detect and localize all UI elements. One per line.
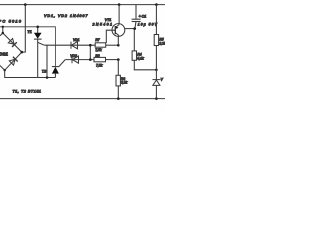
wire bridge plus to top rail bbox=[22, 5, 26, 53]
svg-text:V: V bbox=[161, 77, 164, 81]
wire R4 to right branch bbox=[134, 60, 156, 70]
diode VD2 bbox=[72, 56, 79, 63]
node bridge right vertex bbox=[21, 51, 24, 54]
node bus bridge junction bbox=[2, 26, 4, 28]
svg-text:T1: T1 bbox=[27, 29, 32, 34]
wire vertical gate to anode rail bbox=[46, 45, 48, 77]
svg-text:7,5k: 7,5k bbox=[95, 48, 102, 52]
node right branch junction bbox=[155, 69, 158, 72]
resistor R2 bbox=[94, 57, 106, 61]
wire top rail bbox=[0, 4, 165, 6]
svg-text:VT1: VT1 bbox=[105, 18, 112, 22]
svg-text:3,3k: 3,3k bbox=[121, 81, 128, 85]
diode VD1 bbox=[71, 42, 78, 49]
node collector to C1 bbox=[133, 27, 136, 30]
thyristor T1 bbox=[34, 27, 44, 78]
svg-text:7,5k: 7,5k bbox=[96, 63, 103, 67]
svg-text:2,2k: 2,2k bbox=[158, 41, 165, 45]
node wire77 junction bbox=[46, 76, 49, 79]
wire collector chain down bbox=[117, 60, 119, 76]
diode VD3 bottom right bbox=[153, 80, 161, 99]
node bottom rail junction right diode bbox=[155, 97, 158, 100]
wire bridge bottom to T1 T2 anode rail bbox=[5, 70, 56, 77]
node gate line top bbox=[89, 44, 92, 47]
svg-text:2N5401: 2N5401 bbox=[92, 22, 113, 26]
svg-text:T1, T2 BT151: T1, T2 BT151 bbox=[13, 89, 42, 93]
svg-text:VD1: VD1 bbox=[73, 38, 80, 42]
resistor R4 bbox=[132, 51, 136, 60]
wire VD2 gate line bbox=[65, 59, 94, 61]
node collector mid bbox=[117, 58, 120, 61]
svg-text:PC 5010: PC 5010 bbox=[0, 19, 22, 24]
node bridge bottom vertex bbox=[3, 69, 5, 71]
wire junction gate lines bbox=[89, 45, 91, 59]
wire VD1 gate line bbox=[44, 44, 95, 46]
wire bottom rail bbox=[0, 98, 165, 100]
svg-text:DS1: DS1 bbox=[0, 52, 8, 57]
wire bridge top vertex to bus bbox=[2, 27, 4, 33]
svg-text:10µ 50V: 10µ 50V bbox=[138, 23, 158, 27]
resistor R3 bbox=[116, 75, 120, 86]
transistor VT1 bbox=[106, 5, 134, 46]
thyristor T2 bbox=[52, 60, 65, 78]
diode bridge lower diode bbox=[9, 57, 17, 65]
resistor R7 bbox=[95, 43, 106, 47]
node bridge top vertex bbox=[2, 32, 4, 34]
node top rail junction VT1 bbox=[118, 3, 121, 6]
rectifier bridge DS1 diamond edges bbox=[0, 33, 22, 70]
node T1 anode junction bbox=[36, 26, 39, 29]
node top rail junction left bbox=[24, 3, 27, 6]
svg-text:5,1k: 5,1k bbox=[137, 56, 144, 60]
wire R3 to bottom rail bbox=[117, 86, 119, 99]
wire R5 to diode bbox=[155, 46, 157, 80]
svg-text:C1: C1 bbox=[142, 15, 147, 19]
wire AC bus horizontal bbox=[0, 27, 55, 67]
capacitor C1 bbox=[132, 5, 141, 51]
svg-text:T2: T2 bbox=[42, 68, 47, 73]
svg-text:R7: R7 bbox=[95, 38, 99, 42]
wire R2 to collector bbox=[106, 59, 119, 61]
wire right branch from rail bbox=[155, 5, 157, 35]
svg-text:R2: R2 bbox=[95, 54, 99, 58]
node bottom rail junction R3 bbox=[117, 97, 120, 100]
node collector top bbox=[117, 44, 120, 47]
node top rail junction right bbox=[155, 3, 158, 6]
diode bridge upper diode bbox=[8, 39, 16, 48]
node gate line bottom bbox=[89, 58, 92, 61]
resistor R5 bbox=[154, 35, 158, 46]
svg-text:VD2: VD2 bbox=[70, 54, 77, 58]
svg-text:VD1, VD2 1N4007: VD1, VD2 1N4007 bbox=[44, 14, 88, 18]
wire R7 to collector bbox=[106, 44, 119, 46]
